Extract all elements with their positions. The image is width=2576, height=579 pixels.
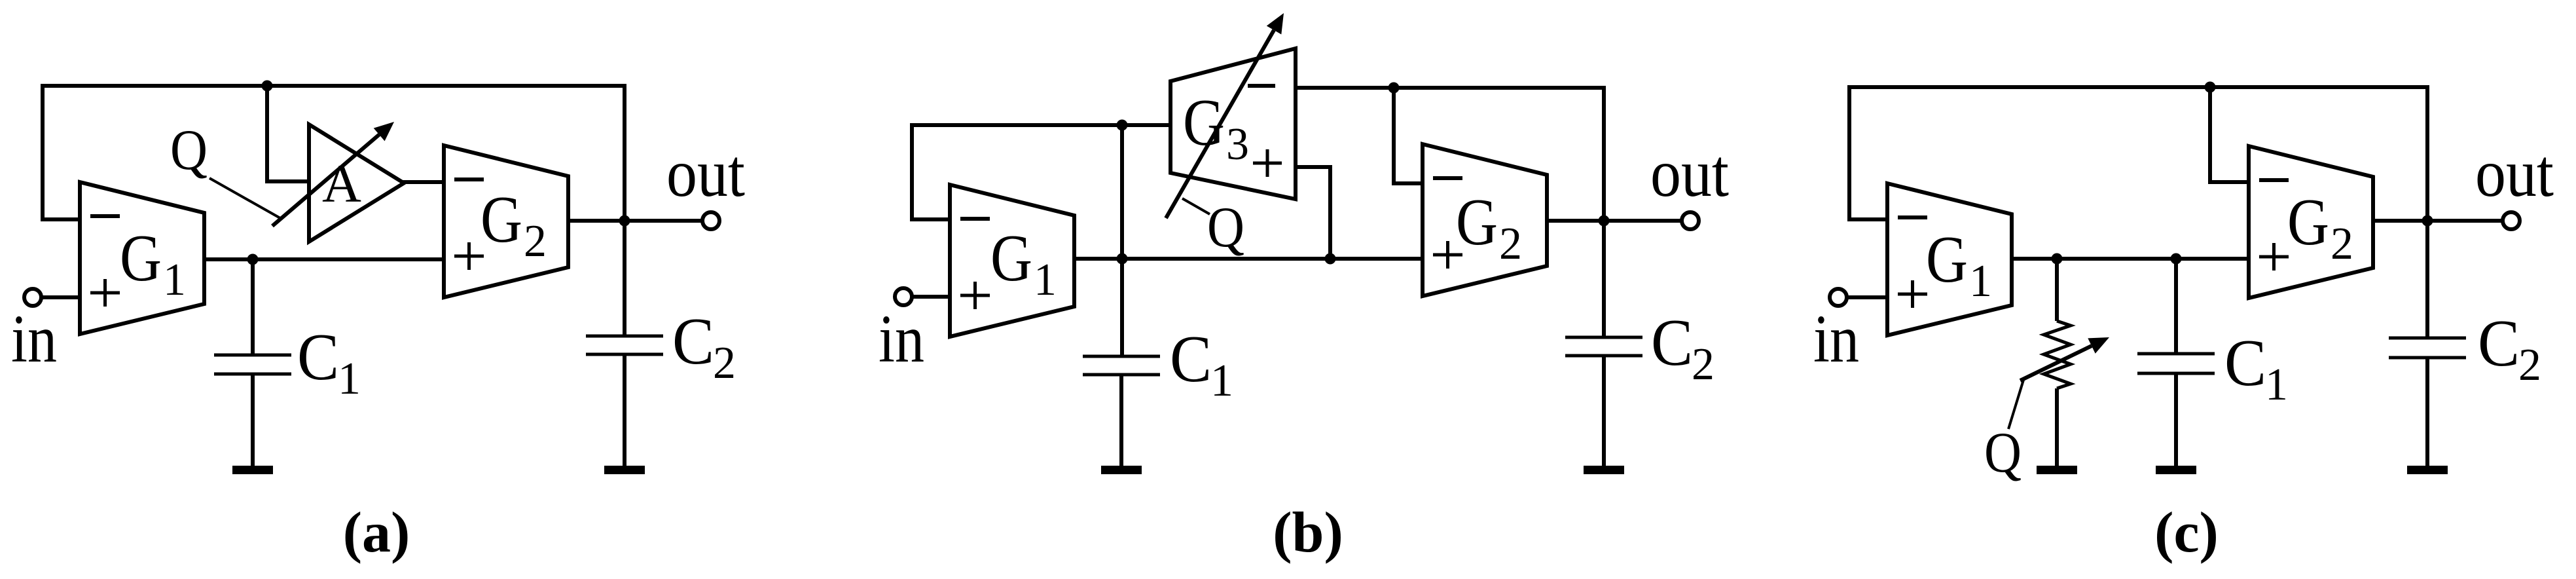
wire G1 output node V1 to G2 plus input xyxy=(205,257,444,261)
ground xyxy=(2037,466,2077,474)
label C1 (c) xyxy=(2224,326,2288,410)
svg-text:1: 1 xyxy=(1034,255,1057,305)
wire resistor bottom to ground xyxy=(2055,388,2059,467)
resistor RQ (variable) xyxy=(2044,321,2071,388)
svg-text:C: C xyxy=(672,305,714,379)
svg-text:in: in xyxy=(11,301,57,377)
label G2 (b) xyxy=(1456,185,1522,269)
amplifier A xyxy=(309,124,404,242)
ground xyxy=(1101,466,1142,474)
capacitor C1 (a) xyxy=(214,355,291,374)
wire G2c output to out terminal xyxy=(2372,219,2503,223)
wire in terminal c to G1c plus xyxy=(1847,295,1887,299)
capacitor C2 (b) xyxy=(1565,337,1642,356)
svg-text:2: 2 xyxy=(1692,339,1714,390)
svg-text:(c): (c) xyxy=(2154,501,2219,565)
ground xyxy=(604,466,645,474)
svg-text:G: G xyxy=(481,183,522,257)
wire in terminal to G1 plus input xyxy=(41,295,80,299)
junction xyxy=(2052,253,2063,265)
op-amp G1 (c) xyxy=(1887,183,2012,335)
label G1 (a) xyxy=(120,221,186,305)
wire C1 bottom to ground xyxy=(251,374,255,467)
svg-text:out: out xyxy=(2475,136,2554,211)
node out (b) terminal xyxy=(1682,212,1699,229)
label C1 (a) xyxy=(297,320,361,404)
capacitor C2 (c) xyxy=(2389,338,2466,358)
svg-text:2: 2 xyxy=(2518,340,2541,390)
op-amp G3 (reversed, variable) xyxy=(1170,48,1296,199)
wire C2 bottom to ground xyxy=(623,354,626,467)
ground xyxy=(1584,466,1624,474)
Q control line (b) xyxy=(1182,198,1210,214)
wire from top rail node to amp A input xyxy=(267,86,309,181)
wire feedback: G1b minus up to rail to G3 output xyxy=(912,125,1170,219)
wire G2 output to out terminal xyxy=(568,219,702,223)
svg-text:2: 2 xyxy=(2331,219,2353,269)
op-amp G1 (a) xyxy=(80,182,204,334)
wire top rail node down to G2c minus input xyxy=(2210,87,2249,182)
wire C1b bottom to ground xyxy=(1119,375,1123,467)
capacitor C1 (c) xyxy=(2137,354,2215,373)
svg-text:2: 2 xyxy=(1499,219,1522,269)
svg-text:C: C xyxy=(2478,307,2520,381)
wire node V1c down to C1c top xyxy=(2174,259,2178,354)
junction xyxy=(247,254,259,265)
Q control line (a) xyxy=(209,178,280,218)
node out (c) terminal xyxy=(2503,212,2520,229)
wire G1c output node to G2c plus input xyxy=(2010,257,2249,261)
wire in terminal b to G1b plus xyxy=(912,295,950,299)
node in (c) terminal xyxy=(1830,289,1847,306)
ground xyxy=(2156,466,2196,474)
wire C1c bottom to ground xyxy=(2174,373,2178,467)
wire node V1c down to resistor top xyxy=(2055,259,2059,321)
junction xyxy=(1117,253,1128,265)
op-amp G2 (c) xyxy=(2249,146,2373,298)
label C2 (c) xyxy=(2478,307,2541,390)
svg-text:1: 1 xyxy=(2265,360,2288,410)
svg-text:2: 2 xyxy=(713,338,736,388)
wire node V1 down to C1 top xyxy=(251,259,255,355)
junction xyxy=(1117,120,1128,131)
svg-text:(a): (a) xyxy=(343,501,410,565)
wire G2b output to out terminal xyxy=(1548,219,1682,223)
svg-text:G: G xyxy=(990,221,1032,295)
svg-text:C: C xyxy=(297,320,339,394)
junction xyxy=(262,81,273,92)
op-amp G2 (b) xyxy=(1423,144,1547,296)
label G2 (c) xyxy=(2287,185,2353,269)
svg-text:G: G xyxy=(2287,185,2329,259)
node in (a) terminal xyxy=(24,289,41,306)
svg-text:in: in xyxy=(1813,301,1859,377)
junction xyxy=(1325,253,1336,265)
wire node V1b vertical from G3 rail down through main node to C1 xyxy=(1120,125,1124,356)
label C1 (b) xyxy=(1170,322,1233,406)
op-amp G2 (a) xyxy=(444,145,568,297)
label G3 xyxy=(1183,86,1249,170)
arrow variable gain of A xyxy=(272,122,394,226)
wire top rail to G2b minus input xyxy=(1394,88,1423,183)
wire C2b bottom to ground xyxy=(1602,356,1606,467)
junction xyxy=(1388,83,1400,94)
svg-text:1: 1 xyxy=(338,354,361,404)
junction xyxy=(2205,82,2216,93)
svg-text:2: 2 xyxy=(524,216,547,267)
svg-text:A: A xyxy=(322,153,361,214)
node in (b) terminal xyxy=(895,288,912,305)
svg-text:G: G xyxy=(1456,185,1498,259)
node out (a) terminal xyxy=(702,212,719,229)
capacitor C1 (b) xyxy=(1083,356,1160,375)
ground xyxy=(2407,466,2448,474)
arrow variable resistor xyxy=(2020,337,2109,381)
label G2 (a) xyxy=(481,183,547,267)
capacitor C2 (a) xyxy=(586,336,663,354)
svg-text:(b): (b) xyxy=(1273,501,1343,565)
svg-text:Q: Q xyxy=(170,119,208,182)
label G1 (c) xyxy=(1926,223,1992,307)
junction xyxy=(619,215,630,227)
svg-text:G: G xyxy=(1926,223,1968,297)
svg-text:C: C xyxy=(1170,322,1212,396)
svg-text:3: 3 xyxy=(1226,119,1249,170)
junction xyxy=(2422,215,2433,227)
arrow variable transconductance G3 xyxy=(1166,13,1284,218)
wire amp A output to G2 minus input xyxy=(403,180,444,184)
Q control line (c) xyxy=(2008,380,2023,429)
svg-text:1: 1 xyxy=(163,255,186,305)
wire G1b output to G2b plus input xyxy=(1075,257,1423,261)
label G1 (b) xyxy=(990,221,1057,305)
svg-text:1: 1 xyxy=(1210,356,1233,406)
svg-text:Q: Q xyxy=(1984,421,2022,485)
wire G3 plus input down to node V1b xyxy=(1296,167,1330,259)
label C2 (a) xyxy=(672,305,736,388)
svg-text:out: out xyxy=(1650,136,1729,211)
wire feedback loop c: G1c minus to top rail right down to C2c xyxy=(1849,87,2427,338)
wire G3 minus input to top rail right down to out node and C2 xyxy=(1296,88,1604,337)
junction xyxy=(1599,215,1610,227)
ground xyxy=(232,466,273,474)
svg-text:out: out xyxy=(666,136,745,211)
wire feedback loop a: G1 minus to top rail to out node down to C2 xyxy=(43,86,625,336)
svg-text:in: in xyxy=(879,301,924,377)
svg-text:C: C xyxy=(1651,306,1693,380)
label C2 (b) xyxy=(1651,306,1714,390)
op-amp G1 (b) xyxy=(950,185,1074,337)
junction xyxy=(2171,253,2182,265)
wire C2c bottom to ground xyxy=(2425,358,2429,467)
svg-text:Q: Q xyxy=(1207,196,1244,259)
svg-text:G: G xyxy=(120,221,162,295)
svg-text:1: 1 xyxy=(1969,256,1992,307)
svg-text:C: C xyxy=(2224,326,2266,400)
